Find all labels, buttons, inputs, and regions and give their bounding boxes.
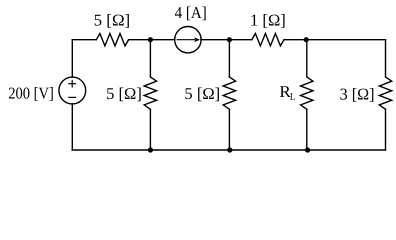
node C junction dot (top) <box>227 37 232 42</box>
wire right rail top down to R5 <box>385 40 387 77</box>
voltage source V1 200 V circle <box>59 77 86 104</box>
wire top-left horizontal segment (node A to R1) <box>72 39 96 41</box>
svg-text:1 [Ω]: 1 [Ω] <box>250 11 286 30</box>
resistor R2 1 ohm (top horizontal) <box>252 34 284 46</box>
resistor R3 5 ohm (vertical) <box>144 77 156 109</box>
wire node C down to R4 <box>228 40 230 77</box>
svg-text:L: L <box>290 92 295 103</box>
wire node B to current source I1 <box>150 39 174 41</box>
node B junction dot (top) <box>148 37 153 42</box>
voltage source V1 minus sign <box>68 96 76 98</box>
wire R1 to node B <box>129 39 151 41</box>
resistor R5 3 ohm (vertical) <box>379 77 391 109</box>
wire RL down to bottom rail <box>306 109 308 150</box>
svg-text:200 [V]: 200 [V] <box>8 83 54 102</box>
node D junction dot (top) <box>304 37 309 42</box>
wire node D to top-right corner <box>307 39 386 41</box>
wire current source to node C <box>201 39 229 41</box>
resistor R1 5 ohm (top horizontal) <box>96 34 128 46</box>
svg-text:5 [Ω]: 5 [Ω] <box>94 11 131 30</box>
svg-text:5 [Ω]: 5 [Ω] <box>184 84 220 103</box>
svg-text:5 [Ω]: 5 [Ω] <box>106 84 142 103</box>
junction dot bottom rail below node D <box>305 147 310 152</box>
wire R5 down to bottom-right corner <box>385 109 387 150</box>
wire node D down to RL <box>306 40 308 77</box>
resistor R4 5 ohm (vertical) <box>223 77 235 109</box>
wire node C to R2 <box>229 39 251 41</box>
wire left rail top (to V1 plus terminal) <box>71 40 73 77</box>
wire bottom rail <box>72 149 385 151</box>
svg-text:4 [A]: 4 [A] <box>175 3 207 22</box>
junction dot bottom rail below node C <box>227 147 232 152</box>
wire R2 to node D <box>284 39 307 41</box>
svg-text:3 [Ω]: 3 [Ω] <box>340 84 375 103</box>
junction dot bottom rail below node B <box>148 147 153 152</box>
wire left rail bottom (V1 minus terminal to bottom-left corner) <box>71 104 73 150</box>
current source I1 arrow <box>177 39 196 41</box>
wire node B down to R3 <box>149 40 151 77</box>
wire R3 down to bottom rail <box>149 109 151 150</box>
resistor RL load (vertical) <box>301 77 313 109</box>
wire R4 down to bottom rail <box>228 109 230 150</box>
current source I1 4 A circle <box>175 27 201 53</box>
voltage source V1 plus sign <box>68 83 76 85</box>
